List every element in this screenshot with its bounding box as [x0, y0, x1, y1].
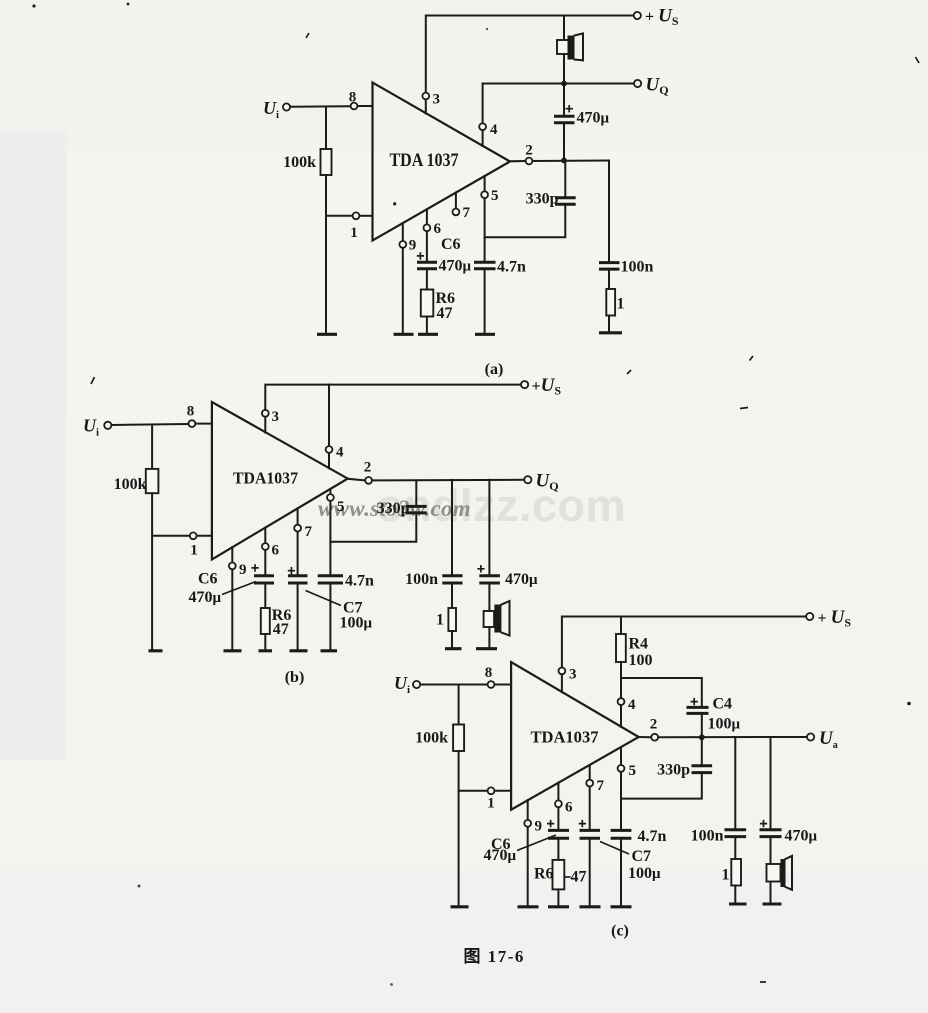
svg-text:C7: C7	[632, 848, 652, 865]
wire input to pin 8 (c)	[421, 684, 487, 686]
wire pin5 down through 4.7n (b)	[329, 502, 331, 576]
speck top mid	[486, 28, 488, 30]
wire 100k to ground (a)	[325, 175, 327, 333]
svg-text:3: 3	[569, 667, 577, 683]
svg-text:100k: 100k	[114, 476, 147, 493]
wire pin5 down (a)	[484, 199, 486, 262]
ground (b) under C7	[290, 649, 308, 652]
pin 4 (b) with wire to rail	[326, 385, 344, 469]
op-amp U1a TDA 1037 triangle	[373, 83, 511, 241]
svg-text:6: 6	[434, 221, 442, 237]
stray dot left bottom	[138, 885, 141, 888]
svg-text:3: 3	[433, 92, 441, 108]
wire output to 100n branch (c)	[734, 737, 736, 830]
svg-text:R6: R6	[534, 866, 554, 883]
tick top right	[916, 57, 920, 63]
pin 1 (c)	[487, 787, 511, 811]
wire speaker branch from rail (a)	[563, 16, 565, 42]
capacitor 470u (b)	[477, 565, 538, 588]
svg-text:1: 1	[617, 296, 625, 313]
svg-text:R4: R4	[629, 636, 649, 653]
svg-text:TDA1037: TDA1037	[233, 469, 298, 488]
ground (c) under resistor 1	[729, 902, 747, 905]
stray dot bottom	[390, 983, 393, 986]
svg-text:5: 5	[337, 499, 345, 515]
capacitor 470u output (a)	[554, 84, 610, 161]
wire to pin 1 (c)	[459, 790, 487, 792]
stray dot inside triangle (a)	[393, 202, 396, 205]
feedback wire 330p to pin5 net (b)	[330, 513, 416, 542]
wire output to 470u branch (b)	[488, 480, 490, 576]
svg-text:1: 1	[722, 867, 730, 884]
capacitor 330p (a)	[526, 161, 576, 208]
pin 8 (b)	[187, 404, 212, 428]
wire 100k branch (b)	[151, 425, 153, 469]
resistor 100k (b)	[114, 469, 159, 493]
pin 2 (a)	[510, 143, 533, 165]
pin 3 (b)	[262, 409, 279, 433]
pin 6 (c)	[555, 783, 573, 816]
ground (c) under C7	[580, 905, 601, 908]
svg-text:1: 1	[190, 543, 198, 559]
svg-text:(b): (b)	[285, 669, 305, 686]
capacitor C4 100u (c)	[687, 696, 741, 738]
svg-text:TDA 1037: TDA 1037	[390, 150, 459, 171]
wire pin 3 to +Us rail (a)	[426, 16, 633, 93]
svg-text:2: 2	[650, 717, 658, 733]
svg-text:470μ: 470μ	[484, 847, 517, 864]
wire output to 100n branch (b)	[451, 480, 453, 576]
resistor 1 (c)	[722, 859, 742, 903]
svg-text:4.7n: 4.7n	[638, 828, 667, 845]
pin 2 (c)	[639, 717, 658, 741]
svg-text:4.7n: 4.7n	[497, 259, 526, 276]
resistor R4 100 (c)	[616, 617, 653, 698]
output wire to Ua (c)	[659, 734, 807, 740]
wire 100k to ground (b)	[151, 493, 153, 649]
wire 100k branch (a)	[325, 107, 327, 150]
pin 5 (a)	[481, 176, 498, 204]
output node wire (a)	[533, 158, 609, 164]
input terminal Ui (b)	[83, 416, 111, 439]
svg-text:9: 9	[535, 819, 543, 835]
ground (b) under speaker	[476, 647, 497, 650]
wire pin5 down through 4.7n (c)	[620, 773, 622, 831]
pin 7 (c)	[586, 765, 604, 794]
ground (b) under resistor 1	[445, 647, 462, 650]
svg-text:100μ: 100μ	[340, 615, 373, 632]
svg-text:47: 47	[571, 869, 587, 886]
speaker LS (a)	[557, 33, 583, 83]
capacitor C6 470u (a)	[417, 232, 472, 290]
svg-text:4: 4	[336, 445, 344, 461]
svg-text:C6: C6	[198, 571, 218, 588]
svg-text:100n: 100n	[621, 259, 654, 276]
capacitor 470u (c)	[760, 820, 818, 845]
pin 3 (c)	[559, 667, 577, 693]
wire pin 3 to +Us rail (b)	[265, 385, 520, 410]
pin 6 (a)	[424, 209, 442, 237]
ground (b) under R6	[259, 649, 273, 652]
op-amp U1b TDA1037 triangle	[212, 402, 348, 559]
svg-text:4.7n: 4.7n	[345, 573, 374, 590]
capacitor C7 100u (c)	[579, 787, 661, 905]
pin 5 (c)	[618, 747, 636, 779]
terminal Ua (c)	[807, 728, 838, 751]
pin 4 (c)	[618, 697, 636, 727]
svg-text:330p: 330p	[377, 500, 410, 517]
stray dash right gap	[740, 408, 748, 409]
input terminal Ui (c)	[394, 673, 420, 696]
ground (c) under 100k	[451, 905, 469, 908]
input terminal Ui (a)	[263, 98, 290, 121]
capacitor C6 470u (b)	[189, 551, 275, 608]
svg-text:6: 6	[272, 543, 280, 559]
ground (a) under 4.7n	[475, 333, 495, 336]
wire 100k branch (c)	[458, 685, 460, 725]
svg-text:100μ: 100μ	[628, 865, 661, 882]
pin 7 (b)	[294, 508, 312, 540]
svg-text:330p: 330p	[526, 191, 559, 208]
speaker LS (b)	[484, 583, 510, 647]
terminal UQ (a)	[634, 75, 669, 98]
ground (a) under resistor 1	[599, 331, 622, 334]
svg-text:7: 7	[597, 778, 605, 794]
svg-text:C6: C6	[441, 236, 461, 253]
pin 6 (b)	[262, 528, 280, 559]
ground (c) under R6	[548, 905, 569, 908]
pin 1 (b)	[190, 532, 212, 558]
svg-text:1: 1	[436, 612, 444, 629]
pin 1 (a)	[350, 212, 372, 241]
svg-text:9: 9	[239, 562, 247, 578]
pin 9 (c)	[524, 800, 542, 905]
wire output to 470u branch (c)	[770, 737, 772, 830]
capacitor 100n (a)	[599, 259, 654, 290]
ground (c) under pin 9	[518, 905, 539, 908]
capacitor 4.7n (c)	[611, 828, 667, 906]
wire input to pin 8 (a)	[291, 105, 350, 108]
ground (b) under pin 9	[224, 649, 242, 652]
stray tick (b)	[91, 377, 95, 384]
ground (c) under 4.7n	[611, 905, 632, 908]
wire pin 3 to +Us rail (c)	[562, 617, 806, 668]
pin 3 (a)	[422, 92, 440, 114]
svg-text:8: 8	[187, 404, 195, 420]
wire to pin 1 (b)	[152, 535, 189, 537]
svg-text:1: 1	[350, 225, 358, 241]
feedback wire 330p to pin5 net (c)	[621, 773, 702, 799]
terminal UQ (b)	[524, 471, 558, 494]
svg-text:470μ: 470μ	[439, 258, 472, 275]
svg-text:100n: 100n	[405, 571, 438, 588]
svg-text:3: 3	[272, 409, 280, 425]
svg-text:5: 5	[629, 763, 637, 779]
svg-text:7: 7	[463, 205, 471, 221]
capacitor 100n (c)	[691, 828, 747, 860]
svg-text:5: 5	[491, 188, 499, 204]
svg-text:100n: 100n	[691, 828, 724, 845]
svg-text:470μ: 470μ	[577, 110, 610, 127]
speck top left 2	[127, 3, 130, 6]
svg-text:C4: C4	[713, 696, 733, 713]
wire R4/pin4 node to C4 (c)	[621, 678, 702, 707]
svg-text:图 17-6: 图 17-6	[464, 947, 525, 966]
svg-text:1: 1	[487, 796, 495, 812]
svg-text:8: 8	[485, 665, 493, 681]
resistor 1 (b)	[436, 608, 456, 647]
wire input to pin 8 (b)	[112, 424, 188, 425]
capacitor 4.7n (a)	[474, 259, 526, 334]
ground (a) under 100k	[317, 333, 337, 336]
stray tick right gap a-b	[750, 356, 754, 361]
svg-text:470μ: 470μ	[785, 828, 818, 845]
capacitor 330p (c)	[657, 737, 712, 778]
capacitor 330p (b)	[377, 480, 427, 517]
ground (a) under pin 9	[394, 333, 414, 336]
speck top left 1	[32, 4, 35, 7]
terminal +Us (b)	[521, 375, 561, 398]
pin 4 (a)	[479, 84, 498, 147]
feedback wire 330p to pin5 net (a)	[485, 204, 566, 237]
pin 8 (a)	[349, 90, 373, 110]
speaker LS (c)	[767, 837, 793, 903]
output wire to UQ (b)	[373, 479, 524, 482]
op-amp U1c TDA1037 triangle	[511, 662, 639, 810]
svg-text:6: 6	[565, 800, 573, 816]
pin 5 (b)	[327, 489, 345, 515]
svg-text:7: 7	[305, 524, 313, 540]
ground (c) under speaker	[763, 902, 782, 905]
pin 8 (c)	[485, 665, 511, 688]
capacitor C6 470u (c)	[484, 808, 570, 864]
svg-text:(a): (a)	[485, 361, 504, 378]
wire output to 100n branch (a)	[608, 161, 610, 263]
svg-text:470μ: 470μ	[189, 589, 222, 606]
wire to pin 1 (a)	[326, 215, 352, 217]
stray dot right (c)	[907, 702, 911, 706]
pin 7 (a)	[453, 193, 471, 221]
svg-text:100μ: 100μ	[708, 716, 741, 733]
terminal +Us (c)	[806, 607, 851, 630]
svg-text:TDA1037: TDA1037	[531, 728, 599, 747]
svg-text:100k: 100k	[415, 730, 448, 747]
wire 100k to ground (c)	[458, 751, 460, 906]
resistor 100k (c)	[415, 725, 464, 752]
resistor R6 47 (a)	[421, 290, 455, 334]
svg-text:2: 2	[364, 460, 372, 476]
pin 9 (b)	[229, 547, 247, 649]
ground (b) under 100k	[149, 649, 163, 652]
stray mark top (a)	[306, 33, 309, 38]
capacitor 100n (b)	[405, 571, 462, 608]
svg-text:100: 100	[629, 652, 653, 669]
capacitor C7 100u (b)	[288, 532, 373, 649]
node UQ rail (a)	[483, 81, 634, 87]
svg-text:47: 47	[437, 305, 453, 322]
svg-text:4: 4	[490, 122, 498, 138]
svg-text:470μ: 470μ	[505, 571, 538, 588]
svg-text:330p: 330p	[657, 762, 690, 779]
ground (a) under R6	[418, 333, 438, 336]
pin 2 (b)	[348, 460, 372, 484]
svg-text:2: 2	[525, 143, 533, 159]
stray dot bottom right	[760, 981, 766, 983]
svg-text:4: 4	[628, 697, 636, 713]
resistor 100k (a)	[283, 149, 331, 175]
svg-text:9: 9	[409, 238, 417, 254]
stray tick left gap	[627, 370, 631, 374]
terminal +Us (a)	[634, 6, 679, 29]
resistor R6 47 (c)	[534, 860, 587, 906]
resistor R6 47 (b)	[261, 607, 292, 650]
capacitor 4.7n (b)	[318, 573, 374, 650]
ground (b) under 4.7n	[321, 649, 338, 652]
pin 9 (a)	[399, 223, 416, 333]
svg-text:(c): (c)	[611, 923, 629, 940]
svg-text:100k: 100k	[283, 154, 316, 171]
svg-text:47: 47	[273, 621, 289, 638]
resistor 1 (a)	[606, 289, 624, 332]
